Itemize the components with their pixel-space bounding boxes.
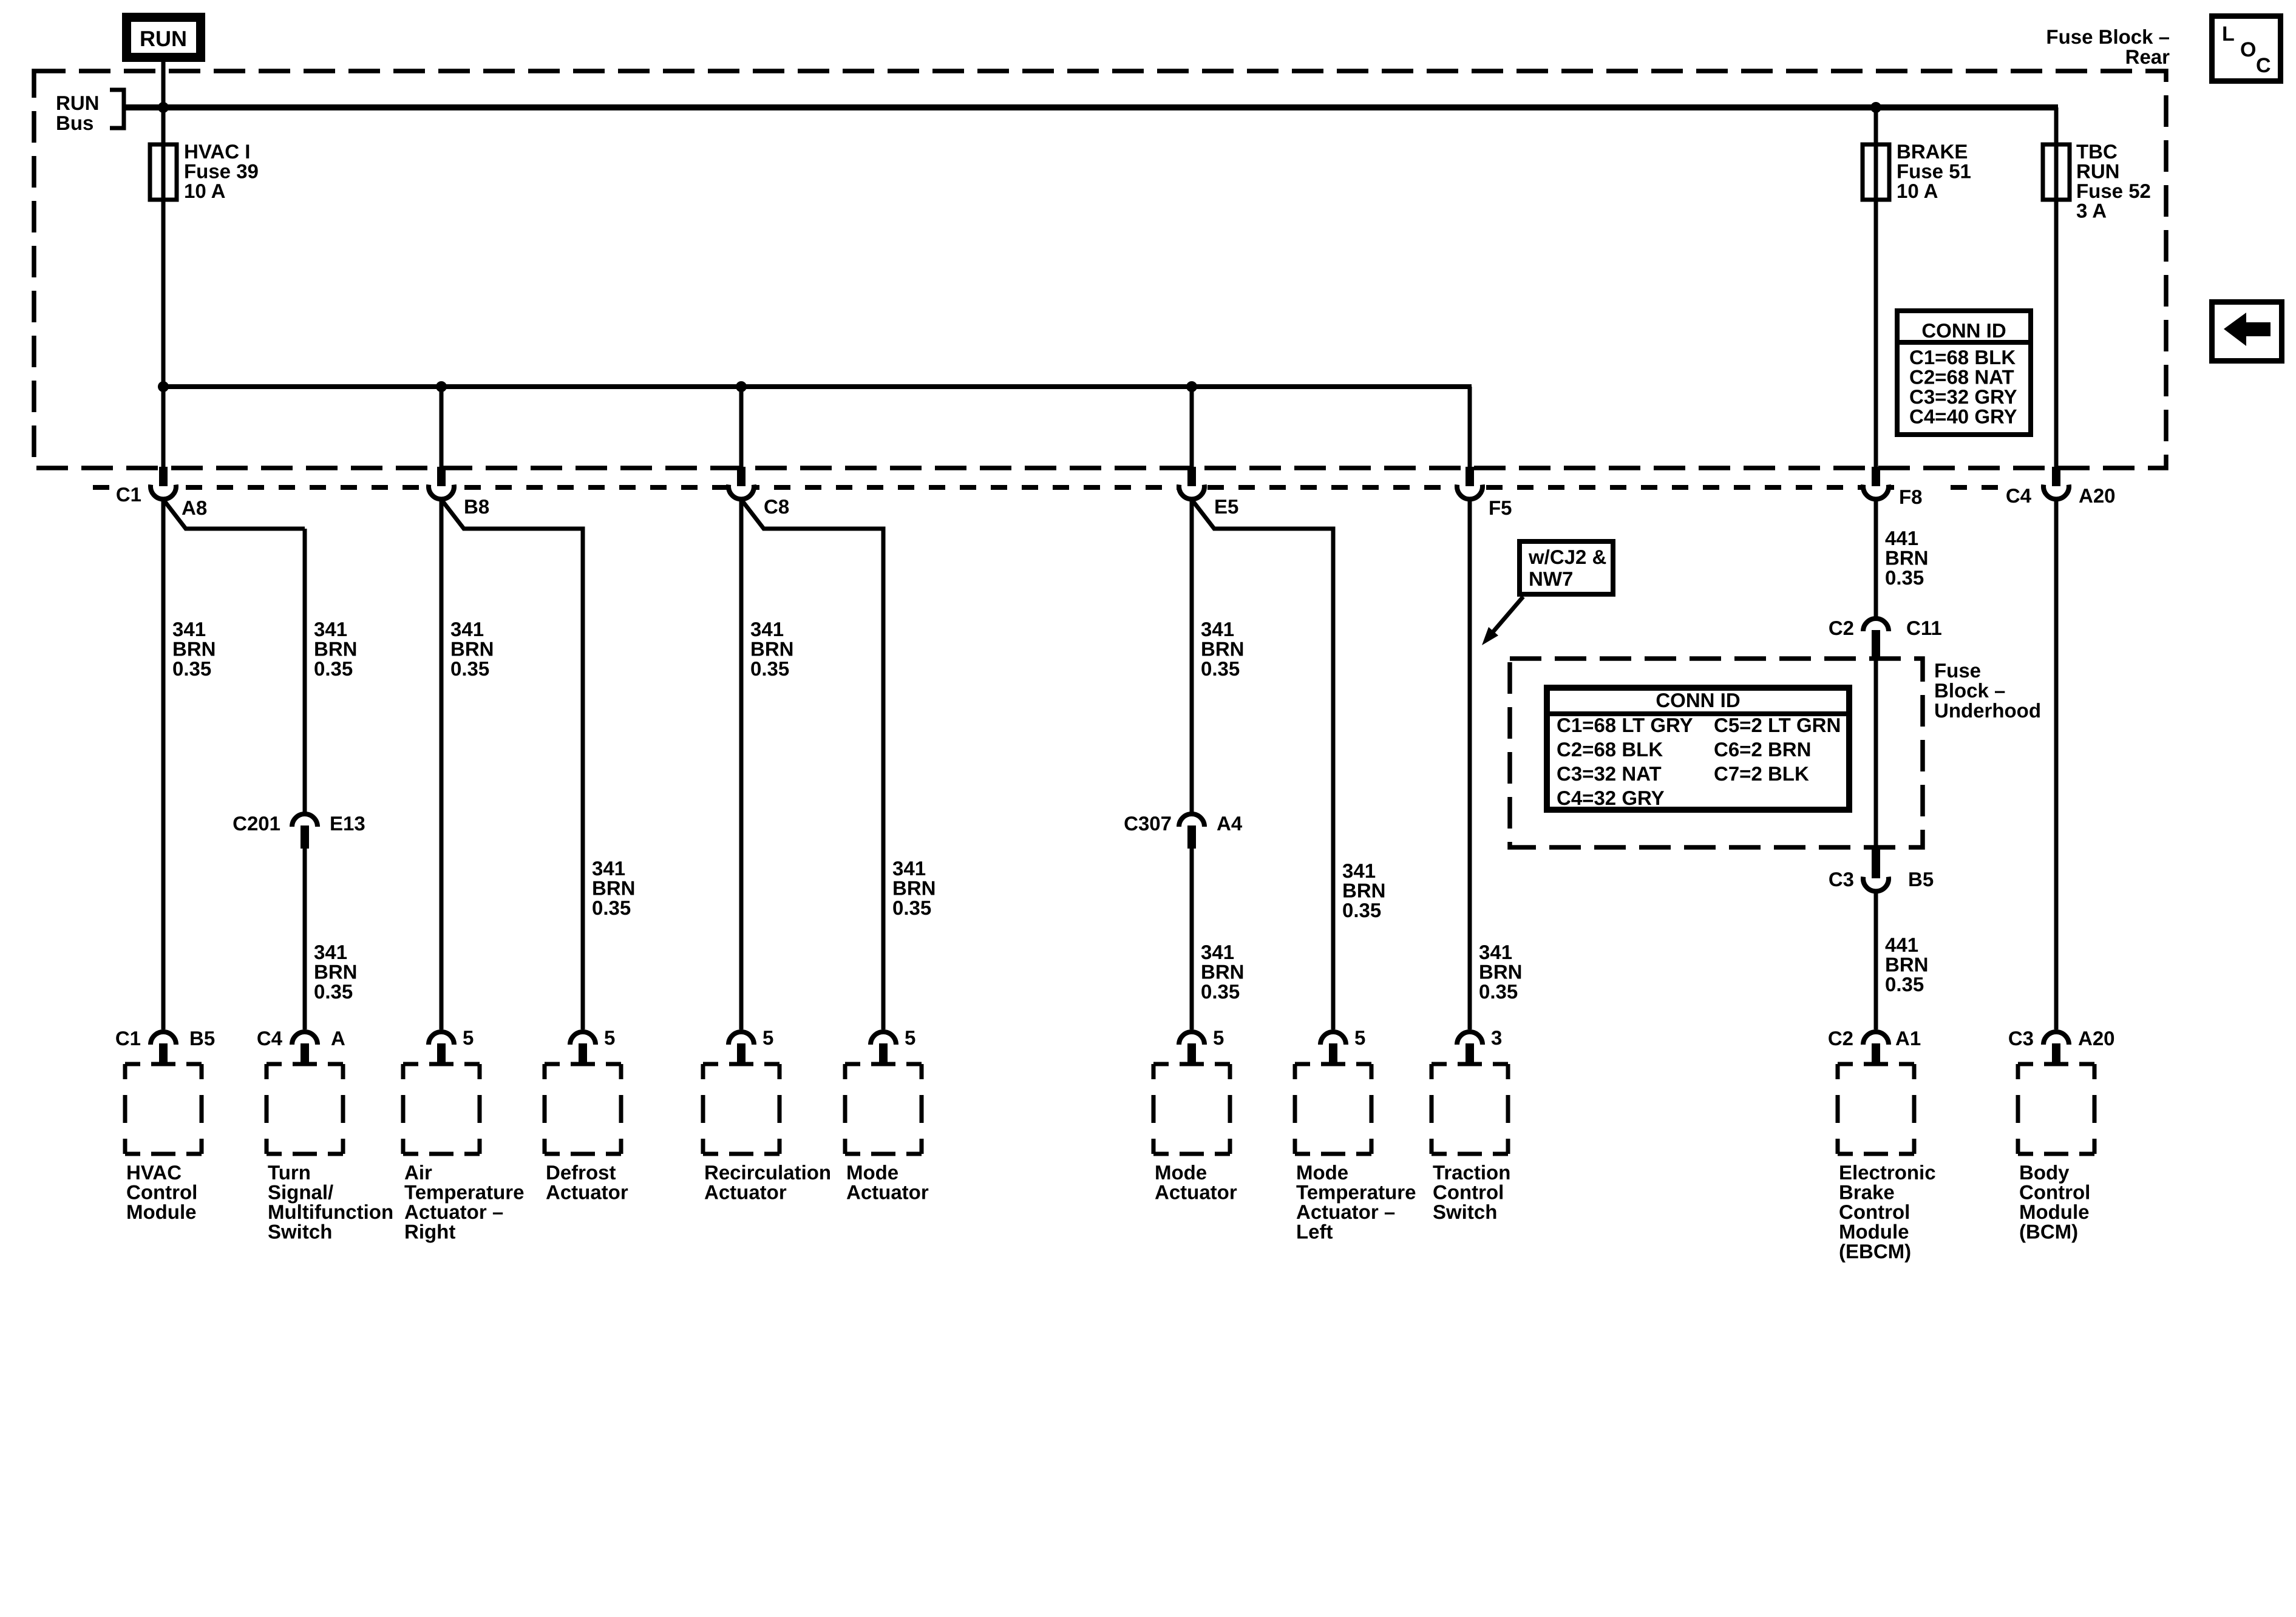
svg-text:C201: C201 (233, 812, 280, 835)
connector pin 5 (Defrost) (570, 1026, 615, 1066)
svg-text:C7=2 BLK: C7=2 BLK (1714, 762, 1809, 785)
connector C3 cavity A20 (BCM) (2008, 1027, 2115, 1066)
module Air Temperature Actuator - Right (dashed box) (403, 1064, 480, 1154)
fuse TBC RUN Fuse 52 3 A (2043, 140, 2151, 222)
connector C1 cavity A8 (fuse block rear) (116, 467, 207, 519)
wire branch C8 to Mode column (741, 500, 883, 1029)
svg-text:RUN: RUN (140, 26, 187, 51)
svg-text:BRN: BRN (592, 877, 636, 900)
label HVAC Control Module (126, 1161, 197, 1223)
svg-text:Multifunction: Multifunction (268, 1201, 393, 1223)
svg-text:341: 341 (1201, 941, 1234, 963)
connector C2 cavity C11 (underhood) (1829, 617, 1942, 660)
svg-text:0.35: 0.35 (314, 980, 353, 1003)
wire label 341 BRN 0.35 (Mode Temp) (1342, 859, 1386, 921)
svg-text:Fuse 39: Fuse 39 (184, 160, 259, 183)
connector cavity E5 (1179, 467, 1238, 518)
svg-text:5: 5 (463, 1026, 474, 1049)
svg-text:BRN: BRN (1479, 961, 1523, 983)
svg-text:HVAC: HVAC (126, 1161, 182, 1184)
svg-text:Actuator: Actuator (546, 1181, 628, 1204)
junction dot RUN/BRAKE (1870, 102, 1881, 113)
connector cavity B8 (429, 467, 489, 518)
svg-text:O: O (2240, 38, 2256, 61)
svg-text:C3=32 GRY: C3=32 GRY (1909, 385, 2017, 408)
svg-text:Underhood: Underhood (1934, 699, 2041, 722)
svg-text:Actuator: Actuator (704, 1181, 787, 1204)
svg-text:C307: C307 (1124, 812, 1172, 835)
svg-text:C4: C4 (257, 1027, 283, 1049)
junction dot RUN/HVAC (158, 102, 169, 113)
svg-text:Recirculation: Recirculation (704, 1161, 831, 1184)
wire bus to connector c3 (440, 387, 444, 468)
connector pin 5 (Recirculation) (729, 1026, 773, 1066)
module Body Control Module (BCM) (dashed box) (2018, 1064, 2094, 1154)
label Mode Actuator 2 (1155, 1161, 1237, 1204)
fuse block - underhood (dashed outline) (1510, 659, 1923, 847)
module Electronic Brake Control Module (EBCM) (dashed box) (1838, 1064, 1914, 1154)
svg-text:B5: B5 (189, 1027, 215, 1049)
svg-text:C2=68 BLK: C2=68 BLK (1557, 738, 1663, 761)
junction dot bus/c3 (436, 381, 447, 392)
svg-text:341: 341 (1201, 618, 1234, 640)
callout arrow (1482, 597, 1523, 645)
svg-text:341: 341 (314, 618, 347, 640)
svg-text:Rear: Rear (2125, 46, 2170, 68)
svg-text:BRN: BRN (314, 638, 358, 660)
svg-text:C: C (2256, 54, 2271, 77)
svg-text:Module: Module (2019, 1201, 2089, 1223)
svg-text:E5: E5 (1214, 495, 1238, 518)
connector C2 cavity A1 (EBCM) (1828, 1027, 1921, 1066)
svg-text:0.35: 0.35 (314, 657, 353, 680)
svg-text:3 A: 3 A (2076, 200, 2107, 222)
wire bus to connector c7 (1190, 387, 1194, 468)
connector cavity F8 (1863, 467, 1923, 508)
svg-text:C1=68 BLK: C1=68 BLK (1909, 346, 2016, 368)
wire F5 to Traction switch (1468, 501, 1472, 1029)
svg-text:C5=2 LT GRN: C5=2 LT GRN (1714, 714, 1841, 736)
svg-text:10 A: 10 A (1897, 180, 1938, 202)
connector C1 cavity B5 (HVAC) (115, 1027, 215, 1066)
svg-text:TBC: TBC (2076, 140, 2118, 163)
wire F8 to C2-C11 (1874, 501, 1878, 617)
svg-text:BRN: BRN (1201, 961, 1245, 983)
svg-text:C6=2 BRN: C6=2 BRN (1714, 738, 1811, 761)
label Air Temperature Actuator - Right (404, 1161, 524, 1243)
wire C201 upper segment (303, 529, 307, 812)
module Mode Temperature Actuator - Left (dashed box) (1295, 1064, 1371, 1154)
svg-text:RUN: RUN (2076, 160, 2120, 183)
wire label 341 BRN 0.35 (Defrost) (592, 857, 636, 919)
module Mode Actuator 2 (dashed box) (1153, 1064, 1230, 1154)
svg-text:C1=68 LT GRY: C1=68 LT GRY (1557, 714, 1693, 736)
svg-text:341: 341 (592, 857, 625, 880)
svg-text:Switch: Switch (268, 1221, 332, 1243)
svg-text:341: 341 (892, 857, 926, 880)
svg-text:BRAKE: BRAKE (1897, 140, 1968, 163)
svg-text:341: 341 (1479, 941, 1512, 963)
svg-text:BRN: BRN (450, 638, 494, 660)
label Body Control Module (BCM) (2019, 1161, 2090, 1243)
svg-text:C3: C3 (1829, 868, 1854, 890)
svg-text:Traction: Traction (1433, 1161, 1510, 1184)
label Mode Temperature Actuator - Left (1296, 1161, 1416, 1243)
svg-text:B8: B8 (464, 495, 489, 518)
svg-text:B5: B5 (1908, 868, 1934, 890)
wire label 441 BRN 0.35 (F8) (1885, 527, 1929, 589)
svg-text:L: L (2222, 22, 2235, 46)
wire BRAKE fuse drop (1874, 107, 1878, 468)
svg-text:A1: A1 (1895, 1027, 1921, 1049)
svg-text:BRN: BRN (1885, 954, 1929, 976)
label Mode Actuator (846, 1161, 929, 1204)
wire distribution bus (horizontal) (163, 384, 1472, 389)
wire B8 to Air Temp actuator (440, 501, 444, 1029)
svg-text:0.35: 0.35 (1479, 980, 1518, 1003)
wire branch A8 to C201 column (163, 500, 305, 529)
svg-text:341: 341 (450, 618, 484, 640)
label Electronic Brake Control Module (EBCM) (1839, 1161, 1936, 1263)
wire TBC fuse drop (2054, 107, 2059, 468)
svg-text:Left: Left (1296, 1221, 1333, 1243)
svg-text:C4: C4 (2006, 484, 2032, 507)
svg-text:BRN: BRN (1201, 638, 1245, 660)
svg-text:CONN ID: CONN ID (1656, 689, 1740, 711)
svg-text:441: 441 (1885, 527, 1918, 549)
svg-text:BRN: BRN (172, 638, 216, 660)
svg-text:341: 341 (314, 941, 347, 963)
wire label 441 BRN 0.35 (B5-EBCM) (1885, 934, 1929, 995)
connector cavity F5 (1457, 467, 1512, 519)
label Fuse Block - Underhood (1934, 659, 2041, 722)
svg-text:C4=32 GRY: C4=32 GRY (1557, 787, 1665, 809)
svg-text:C2: C2 (1828, 1027, 1853, 1049)
wire bus to connector c5 (739, 387, 744, 468)
connector pin 5 (Air Temp) (429, 1026, 474, 1066)
svg-text:5: 5 (604, 1026, 615, 1049)
wire C201 lower segment (303, 849, 307, 1029)
connector pin 5 (Mode 2) (1179, 1026, 1224, 1066)
svg-text:Signal/: Signal/ (268, 1181, 333, 1204)
row masks (113, 472, 1940, 501)
label Turn Signal/Multifunction Switch (268, 1161, 393, 1243)
CONN ID table (underhood) (1547, 688, 1849, 810)
connector cavity C8 (729, 467, 789, 518)
wire label 341 BRN 0.35 (A8) (172, 618, 216, 680)
label Recirculation Actuator (704, 1161, 831, 1204)
wire label 341 BRN 0.35 (C8) (750, 618, 794, 680)
svg-text:5: 5 (1213, 1026, 1224, 1049)
wire C8 to Recirculation actuator (739, 501, 744, 1029)
module Traction Control Switch (dashed box) (1432, 1064, 1508, 1154)
svg-text:Defrost: Defrost (546, 1161, 616, 1184)
module Turn Signal/Multifunction Switch (dashed box) (267, 1064, 343, 1154)
svg-text:Actuator: Actuator (1155, 1181, 1237, 1204)
wire label 341 BRN 0.35 (below C307) (1201, 941, 1245, 1003)
junction dot bus/c7 (1186, 381, 1197, 392)
svg-text:Air: Air (404, 1161, 432, 1184)
svg-text:Control: Control (1839, 1201, 1910, 1223)
svg-text:5: 5 (905, 1026, 915, 1049)
junction dot bus/c5 (736, 381, 747, 392)
svg-text:C2: C2 (1829, 617, 1854, 639)
svg-text:F5: F5 (1489, 497, 1512, 519)
svg-text:Temperature: Temperature (404, 1181, 524, 1204)
wire RUN box to bus (161, 58, 166, 107)
CONN ID table (rear) (1897, 311, 2031, 435)
svg-text:0.35: 0.35 (1201, 657, 1240, 680)
wire B5 to EBCM (1874, 892, 1878, 1029)
label Defrost Actuator (546, 1161, 628, 1204)
svg-text:Switch: Switch (1433, 1201, 1497, 1223)
svg-text:0.35: 0.35 (1885, 566, 1924, 589)
wire label 341 BRN 0.35 (Mode) (892, 857, 936, 919)
svg-text:RUN: RUN (56, 92, 100, 114)
svg-text:(EBCM): (EBCM) (1839, 1240, 1911, 1263)
wire branch E5 to Mode Temp column (1192, 500, 1333, 1029)
svg-text:Mode: Mode (1155, 1161, 1207, 1184)
svg-text:Brake: Brake (1839, 1181, 1895, 1204)
module Mode Actuator (dashed box) (845, 1064, 922, 1154)
connector pin 5 (Mode Temp) (1320, 1026, 1365, 1066)
svg-text:Actuator: Actuator (846, 1181, 929, 1204)
svg-text:0.35: 0.35 (592, 897, 631, 919)
inline connector C307 cavity A4 (1124, 812, 1243, 849)
fuse block - rear (dashed outline) (34, 71, 2166, 468)
svg-text:Electronic: Electronic (1839, 1161, 1936, 1184)
svg-text:C2=68 NAT: C2=68 NAT (1909, 366, 2014, 388)
wire RUN bus (horizontal) (124, 104, 2058, 110)
svg-text:BRN: BRN (1342, 880, 1386, 902)
svg-text:Control: Control (126, 1181, 197, 1204)
svg-text:Fuse: Fuse (1934, 659, 1981, 682)
svg-text:0.35: 0.35 (1342, 899, 1381, 921)
svg-text:5: 5 (1354, 1026, 1365, 1049)
connector pin 3 (Traction) (1457, 1026, 1502, 1066)
label Fuse Block - Rear (2046, 25, 2170, 68)
svg-text:A20: A20 (2078, 1027, 2115, 1049)
svg-text:Fuse 51: Fuse 51 (1897, 160, 1971, 183)
svg-text:Temperature: Temperature (1296, 1181, 1416, 1204)
svg-text:NW7: NW7 (1529, 568, 1573, 590)
RUN Bus label (56, 92, 100, 134)
svg-text:BRN: BRN (892, 877, 936, 900)
svg-text:A4: A4 (1217, 812, 1243, 835)
wire branch B8 to Defrost column (441, 500, 583, 1029)
wire C11 inside underhood block (1874, 659, 1878, 849)
connector row (dotted line) (93, 485, 2008, 490)
svg-text:(BCM): (BCM) (2019, 1221, 2078, 1243)
junction dot bus/c1 (158, 381, 169, 392)
connector C3 cavity B5 (underhood) (1829, 849, 1934, 891)
inline connector C201 cavity E13 (233, 812, 365, 849)
LOC legend box (2212, 16, 2281, 81)
wire bus to connector c9 (1468, 387, 1472, 468)
svg-text:Mode: Mode (1296, 1161, 1348, 1184)
svg-text:A: A (331, 1027, 345, 1049)
wire label 341 BRN 0.35 (below C201) (314, 941, 358, 1003)
svg-text:C3=32 NAT: C3=32 NAT (1557, 762, 1662, 785)
svg-text:w/CJ2 &: w/CJ2 & (1528, 546, 1606, 568)
wire label 341 BRN 0.35 (Traction) (1479, 941, 1523, 1003)
wire A20 to BCM (2054, 501, 2059, 1029)
svg-text:A20: A20 (2079, 484, 2116, 507)
svg-text:Control: Control (1433, 1181, 1504, 1204)
svg-text:0.35: 0.35 (1885, 973, 1924, 995)
navigation arrow box (2212, 302, 2282, 361)
wire label 341 BRN 0.35 (E5) (1201, 618, 1245, 680)
svg-text:HVAC I: HVAC I (184, 140, 250, 163)
wire HVAC fuse drop (161, 107, 166, 468)
fuse HVAC I Fuse 39 10 A (150, 140, 259, 202)
RUN Bus bracket (110, 90, 124, 128)
module Recirculation Actuator (dashed box) (703, 1064, 779, 1154)
svg-text:C1: C1 (115, 1027, 141, 1049)
svg-text:C8: C8 (764, 495, 789, 518)
svg-text:10 A: 10 A (184, 180, 225, 202)
svg-text:Control: Control (2019, 1181, 2090, 1204)
module HVAC Control Module (dashed box) (125, 1064, 202, 1154)
svg-text:CONN ID: CONN ID (1921, 319, 2006, 342)
callout box w/CJ2 & NW7 (1520, 541, 1613, 594)
svg-text:Actuator –: Actuator – (1296, 1201, 1395, 1223)
svg-text:341: 341 (1342, 859, 1376, 882)
wire label 341 BRN 0.35 (C201 col) (314, 618, 358, 680)
svg-text:C11: C11 (1906, 617, 1942, 639)
wire A8 to HVAC module (161, 501, 166, 1029)
svg-text:341: 341 (172, 618, 206, 640)
svg-text:BRN: BRN (1885, 547, 1929, 569)
wire E5 lower segment (1190, 849, 1194, 1029)
svg-text:0.35: 0.35 (892, 897, 931, 919)
fuse BRAKE Fuse 51 10 A (1863, 140, 1971, 202)
svg-text:341: 341 (750, 618, 784, 640)
wire label 341 BRN 0.35 (B8) (450, 618, 494, 680)
svg-text:A8: A8 (182, 497, 207, 519)
svg-text:E13: E13 (330, 812, 365, 835)
svg-text:C4=40 GRY: C4=40 GRY (1909, 405, 2017, 428)
svg-text:C3: C3 (2008, 1027, 2034, 1049)
connector pin 5 (Mode) (871, 1026, 915, 1066)
svg-text:BRN: BRN (314, 961, 358, 983)
svg-text:0.35: 0.35 (172, 657, 211, 680)
svg-text:0.35: 0.35 (750, 657, 789, 680)
svg-text:3: 3 (1491, 1026, 1502, 1049)
svg-text:BRN: BRN (750, 638, 794, 660)
svg-text:Actuator –: Actuator – (404, 1201, 503, 1223)
svg-text:F8: F8 (1899, 486, 1923, 508)
module Defrost Actuator (dashed box) (545, 1064, 621, 1154)
svg-text:Block –: Block – (1934, 679, 2005, 702)
svg-text:0.35: 0.35 (1201, 980, 1240, 1003)
svg-text:Mode: Mode (846, 1161, 898, 1184)
wire E5 upper segment (1190, 501, 1194, 812)
svg-text:5: 5 (763, 1026, 773, 1049)
svg-text:Fuse 52: Fuse 52 (2076, 180, 2151, 202)
svg-text:Body: Body (2019, 1161, 2070, 1184)
connector C4 cavity A20 (2006, 467, 2116, 507)
svg-text:Bus: Bus (56, 112, 93, 134)
connector C4 cavity A (Turn Signal) (257, 1027, 345, 1066)
svg-text:Turn: Turn (268, 1161, 311, 1184)
label Traction Control Switch (1433, 1161, 1510, 1223)
svg-text:Fuse Block –: Fuse Block – (2046, 25, 2170, 48)
svg-text:C1: C1 (116, 483, 141, 506)
svg-text:441: 441 (1885, 934, 1918, 956)
svg-text:Module: Module (1839, 1221, 1909, 1243)
svg-text:0.35: 0.35 (450, 657, 489, 680)
power feed RUN box (127, 18, 201, 58)
svg-text:Module: Module (126, 1201, 196, 1223)
svg-text:Right: Right (404, 1221, 455, 1243)
